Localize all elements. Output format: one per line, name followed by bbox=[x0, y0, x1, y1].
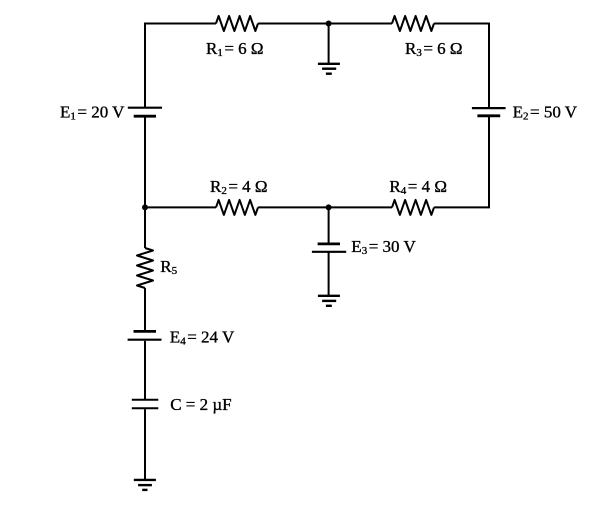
wire R1 to R3 through node A bbox=[258, 23, 392, 25]
resistor R4 bbox=[392, 200, 434, 215]
wire left node to R5 bbox=[144, 207, 146, 248]
wire node A ground stub bbox=[328, 24, 330, 64]
battery E1 plates bbox=[128, 107, 162, 109]
wire E2 to middle rail right segment bbox=[434, 116, 489, 208]
svg-text:R1= 6 Ω: R1= 6 Ω bbox=[206, 39, 264, 59]
svg-text:R2= 4 Ω: R2= 4 Ω bbox=[210, 177, 268, 197]
wire R5 to E4 bbox=[144, 288, 146, 331]
svg-text:R3= 6 Ω: R3= 6 Ω bbox=[405, 39, 463, 59]
svg-text:E2= 50 V: E2= 50 V bbox=[513, 103, 578, 123]
node A junction dot bbox=[326, 21, 332, 27]
svg-text:E3= 30 V: E3= 30 V bbox=[351, 237, 416, 257]
wire E3 to ground bbox=[328, 253, 330, 296]
resistor R5 bbox=[137, 248, 153, 288]
battery E2 plates bbox=[472, 107, 506, 109]
ground bottom of left branch bbox=[134, 480, 156, 490]
svg-text:R4= 4 Ω: R4= 4 Ω bbox=[389, 177, 447, 197]
resistor R2 bbox=[216, 200, 258, 215]
svg-text:E4= 24 V: E4= 24 V bbox=[170, 328, 235, 348]
capacitor C plates bbox=[132, 399, 159, 401]
wire top-left corner to R1 bbox=[145, 24, 216, 108]
battery E3 plates bbox=[318, 242, 340, 245]
ground under node A bbox=[318, 64, 340, 74]
wire E1 to left node bbox=[144, 116, 146, 207]
battery E4 plates bbox=[134, 330, 157, 333]
svg-text:E1= 20 V: E1= 20 V bbox=[60, 103, 125, 123]
wire node B to E3 bbox=[328, 207, 330, 243]
wire left node to R2 bbox=[145, 206, 216, 208]
resistor R3 bbox=[392, 16, 434, 31]
wire capacitor C to ground bbox=[144, 409, 146, 480]
wire E4 to capacitor C bbox=[144, 341, 146, 399]
resistor R1 bbox=[216, 16, 258, 31]
left node junction dot bbox=[142, 204, 148, 210]
wire R3 to top-right corner down to E2 bbox=[434, 24, 489, 108]
wire R2 to R4 through node B bbox=[258, 206, 392, 208]
node B junction dot bbox=[326, 204, 332, 210]
svg-text:C = 2 µF: C = 2 µF bbox=[170, 395, 231, 414]
ground under E3 bbox=[318, 296, 340, 306]
